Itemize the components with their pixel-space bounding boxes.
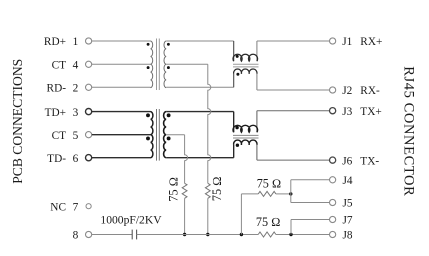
resistor R1 75ohm vertical (182, 183, 187, 198)
pin 7 NC terminal (86, 204, 91, 209)
pin 2 terminal (86, 84, 92, 90)
transformer T1 secondary winding (164, 41, 166, 88)
terminal J5 (330, 199, 336, 205)
resistor R3 75ohm horizontal (258, 191, 276, 196)
CMC2 dot bottom (236, 144, 239, 147)
wire choke to J2 (257, 89, 330, 91)
svg-text:1: 1 (73, 36, 79, 48)
CMC1 bottom winding (234, 69, 257, 74)
svg-text:TX+: TX+ (360, 106, 381, 118)
junction R3 drop on bus (240, 233, 243, 236)
svg-text:J1: J1 (342, 36, 352, 48)
wire pin2 to T1 primary bottom (92, 86, 151, 88)
CMC2 core line 2 (233, 137, 259, 139)
CMC2 core line 1 (233, 134, 259, 136)
svg-text:J2: J2 (342, 85, 352, 97)
pin 1 terminal (86, 38, 92, 44)
wire pin4 to T1 primary CT (92, 63, 151, 65)
pin 6 terminal (86, 155, 92, 161)
terminal J6 (330, 157, 336, 163)
wire T1 secondary CT to R2 (166, 63, 208, 65)
T1 core line 1 (156, 39, 158, 91)
svg-text:TD+: TD+ (45, 107, 66, 119)
svg-text:75 Ω: 75 Ω (167, 177, 181, 202)
wire R2 to bus (207, 198, 209, 234)
wire pin1 to T1 primary top (92, 40, 151, 42)
svg-text:TD-: TD- (47, 153, 66, 165)
CMC2 top winding (233, 125, 258, 132)
svg-text:75 Ω: 75 Ω (210, 176, 224, 201)
svg-text:7: 7 (73, 201, 79, 213)
wire R3 left lead (241, 193, 258, 195)
CMC1 right riser bottom (256, 74, 258, 90)
junction R3 J4/J5 (289, 192, 292, 195)
CMC1 right riser top (256, 41, 258, 61)
T2 core line 1 (156, 109, 158, 161)
pin 8 terminal (86, 231, 92, 237)
wire T2 secondary CT to R1 (166, 134, 184, 136)
junction J7 riser on bus (289, 233, 292, 236)
CMC1 left riser bottom (233, 74, 235, 88)
junction R2 bus (206, 233, 209, 236)
transformer T1 primary winding (151, 41, 153, 88)
wire to J7 (291, 219, 329, 221)
svg-text:CT: CT (52, 130, 67, 142)
T2 primary dot 1 (146, 113, 150, 117)
svg-text:8: 8 (73, 230, 79, 242)
CMC2 right riser bottom (256, 145, 258, 160)
svg-text:J3: J3 (342, 106, 352, 118)
wire pin5 to T2 primary CT (92, 134, 151, 136)
svg-text:2: 2 (73, 83, 79, 95)
CMC1 dot top (236, 55, 239, 58)
CMC1 dot bottom (236, 73, 239, 76)
terminal J4 (330, 177, 336, 183)
T2 secondary dot 1 (167, 113, 171, 117)
wire choke to J1 (257, 40, 330, 42)
terminal J3 (330, 108, 336, 114)
CMC2 left riser top (233, 112, 235, 133)
wire pin8 to capacitor (92, 234, 132, 236)
svg-text:CT: CT (52, 60, 67, 72)
wire choke to J3 (257, 110, 330, 112)
CMC1 top winding (233, 54, 258, 61)
svg-text:J6: J6 (342, 155, 352, 167)
terminal J2 (330, 87, 336, 93)
svg-text:75 Ω: 75 Ω (257, 177, 282, 191)
wire R2 drop from T1 CT (208, 64, 211, 183)
svg-text:TX-: TX- (360, 155, 379, 167)
svg-text:RJ45 CONNECTOR: RJ45 CONNECTOR (401, 66, 417, 196)
capacitor C1 plate 1 (131, 230, 133, 240)
capacitor C1 plate 2 (136, 230, 138, 240)
bus wire R4 to J8 (276, 234, 330, 236)
CMC1 core line 1 (233, 63, 259, 65)
svg-text:3: 3 (73, 107, 79, 119)
wire J4-J5 vertical (290, 180, 292, 203)
svg-text:RX+: RX+ (360, 36, 382, 48)
CMC2 left riser bottom (233, 145, 235, 158)
wire T1 secondary bottom to choke CMC1 (166, 86, 234, 88)
terminal J7 (330, 216, 336, 222)
svg-text:4: 4 (73, 60, 79, 72)
T1 secondary dot 2 (167, 66, 170, 69)
svg-text:J8: J8 (343, 230, 353, 242)
transformer T2 primary winding (151, 112, 153, 158)
svg-text:J7: J7 (343, 215, 353, 227)
wire choke to J6 (257, 159, 330, 161)
svg-text:6: 6 (73, 153, 79, 165)
CMC2 right riser top (256, 111, 258, 133)
pin 5 terminal (86, 132, 92, 138)
wire R3 right lead (276, 193, 291, 195)
terminal J8 (330, 231, 336, 237)
pin 4 terminal (86, 61, 92, 67)
wire pin6 to T2 primary bottom (92, 157, 151, 159)
wire R1 to bus (184, 198, 186, 234)
wire J7 riser (290, 220, 292, 235)
svg-text:J5: J5 (343, 198, 353, 210)
svg-text:PCB CONNECTIONS: PCB CONNECTIONS (10, 59, 25, 184)
wire T2 secondary top to choke CMC2 (166, 111, 234, 113)
CMC2 dot top (235, 126, 238, 129)
T1 primary dot 2 (147, 66, 150, 69)
resistor R4 75ohm in bus (258, 232, 276, 237)
wire to J5 (291, 202, 330, 204)
wire T2 secondary bottom to choke CMC2 (166, 157, 234, 159)
wire pin3 to T2 primary top (92, 111, 151, 113)
wire R1 drop from T2 CT (185, 135, 188, 184)
svg-text:RD-: RD- (47, 83, 67, 95)
bus wire capacitor to R4 (137, 234, 259, 236)
junction R1 bus (183, 233, 186, 236)
T2 secondary dot 2 (167, 136, 171, 140)
T2 primary dot 2 (146, 136, 150, 140)
T1 primary dot 1 (147, 43, 150, 46)
terminal J1 (330, 38, 336, 44)
wire R3 left drop to bus (240, 194, 242, 235)
svg-text:1000pF/2KV: 1000pF/2KV (100, 214, 162, 227)
CMC2 bottom winding (234, 140, 257, 145)
svg-text:RD+: RD+ (44, 36, 66, 48)
svg-text:75 Ω: 75 Ω (256, 215, 281, 229)
CMC1 left riser top (233, 41, 235, 61)
pin 3 terminal (86, 109, 92, 115)
T1 secondary dot 1 (167, 43, 170, 46)
T1 core line 2 (158, 39, 160, 91)
T2 core line 2 (158, 109, 160, 161)
wire to J4 (291, 179, 330, 181)
transformer T2 secondary winding (164, 112, 167, 158)
resistor R2 75ohm vertical (205, 183, 210, 198)
svg-text:5: 5 (73, 130, 79, 142)
svg-text:RX-: RX- (360, 85, 380, 97)
svg-text:J4: J4 (343, 175, 353, 187)
svg-text:NC: NC (50, 201, 66, 213)
wire T1 secondary top to choke CMC1 (166, 40, 234, 42)
CMC1 core line 2 (233, 66, 259, 68)
